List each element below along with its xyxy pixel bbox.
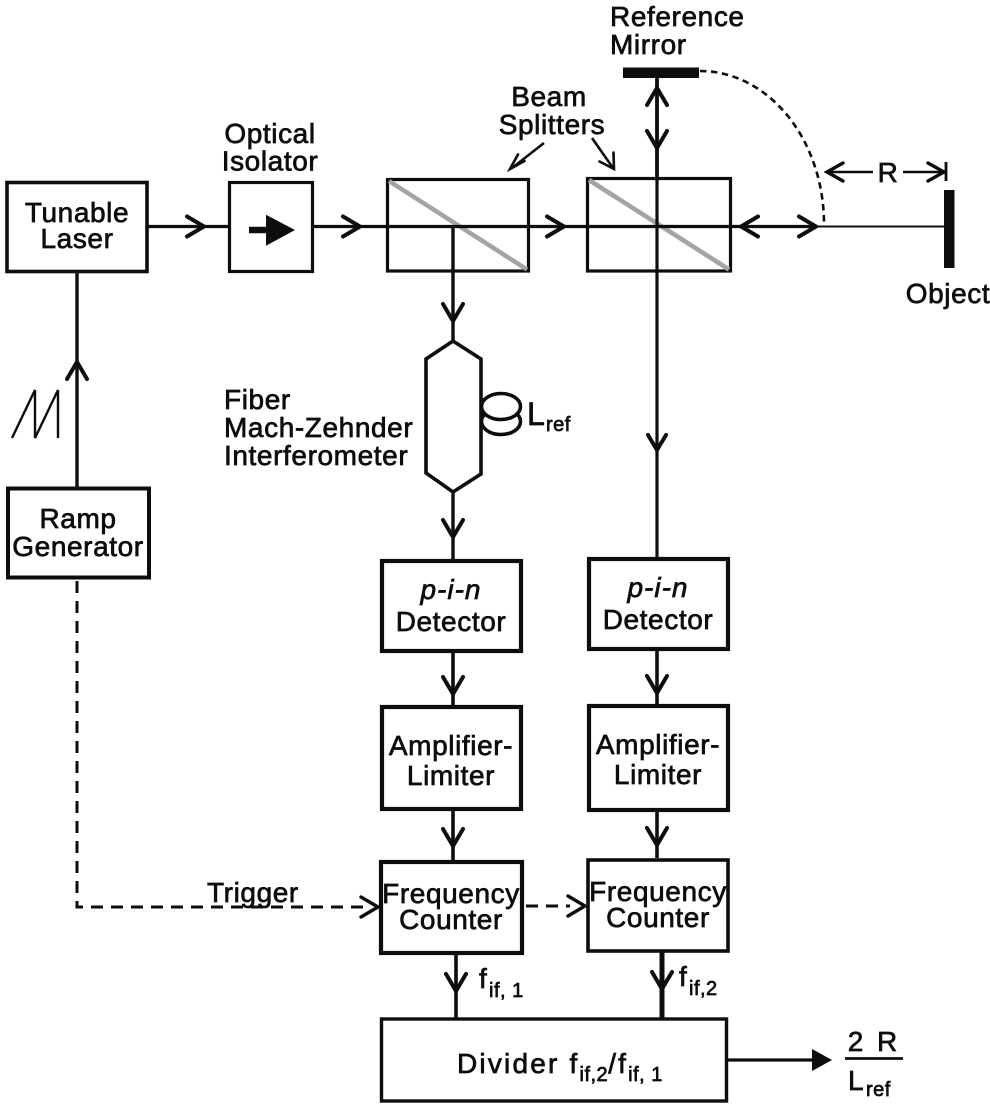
svg-text:Amplifier-: Amplifier- [389, 730, 513, 761]
svg-text:Splitters: Splitters [499, 109, 606, 140]
arrowhead between splitters [547, 217, 564, 237]
arrowhead into pin detector 1 [443, 520, 463, 537]
svg-text:p-i-n: p-i-n [419, 574, 481, 605]
svg-text:f: f [679, 961, 687, 992]
dashed arc mirror to beam line [700, 71, 824, 224]
thin beam line to object [816, 226, 946, 228]
svg-text:Mach-Zehnder: Mach-Zehnder [224, 412, 413, 443]
wire ramp generator to laser [75, 273, 78, 487]
Mach-Zehnder hexagon [426, 341, 481, 492]
svg-text:Limiter: Limiter [614, 759, 702, 790]
R dimension left arrow [827, 171, 873, 174]
box ramp generator [8, 489, 149, 578]
R dimension right arrow [903, 171, 944, 174]
vertical through splitter2 [655, 179, 658, 271]
fiber coil upper loop [482, 394, 521, 420]
svg-text:Trigger: Trigger [207, 877, 299, 908]
wire det1 to amp1 [451, 651, 455, 705]
svg-text:ref: ref [546, 414, 571, 436]
svg-text:p-i-n: p-i-n [626, 572, 688, 603]
box optical isolator [230, 183, 313, 272]
wire splitter2 down to pin detector 2 [655, 271, 658, 557]
svg-text:Generator: Generator [12, 531, 143, 562]
box frequency counter 2 [588, 860, 728, 951]
R dimension end tick [945, 162, 948, 181]
wire splitter1 down to interferometer [451, 227, 454, 342]
svg-text:Detector: Detector [396, 606, 507, 637]
arrowhead into amp1 [443, 677, 463, 694]
box amplifier-limiter 1 [382, 707, 521, 809]
svg-text:Laser: Laser [40, 223, 113, 254]
svg-text:Beam: Beam [511, 81, 587, 112]
pointer arrow to splitter2 [592, 138, 613, 168]
box divider [382, 1019, 727, 1101]
arrowhead into fc1 [443, 829, 463, 846]
svg-text:Counter: Counter [399, 904, 503, 935]
reference mirror bar [623, 68, 699, 79]
svg-text:ref: ref [866, 1079, 891, 1101]
svg-text:Counter: Counter [606, 902, 710, 933]
arrowhead isolator to splitter1 [343, 217, 360, 237]
arrowhead fif2 [652, 972, 672, 989]
svg-text:Ramp: Ramp [39, 503, 116, 534]
svg-text:Interferometer: Interferometer [224, 440, 408, 471]
svg-text:Reference: Reference [610, 1, 745, 32]
arrowhead into fc2 [568, 896, 585, 916]
dashed trigger wire from ramp generator [77, 581, 366, 907]
isolator arrow symbol [249, 227, 270, 234]
svg-text:f: f [479, 963, 487, 994]
dashed wire fc1 to fc2 [526, 905, 570, 908]
main beam line through splitters [386, 225, 534, 228]
svg-text:Amplifier-: Amplifier- [596, 729, 720, 760]
svg-text:Detector: Detector [603, 604, 714, 635]
object bar [944, 190, 955, 268]
arrowhead into fc2 [647, 828, 667, 845]
box Tunable Laser [7, 183, 147, 272]
arrowhead into pin detector 2 [648, 435, 666, 450]
arrowhead into amp2 [647, 676, 667, 693]
svg-text:Mirror: Mirror [610, 29, 687, 60]
arrowhead into interferometer [443, 304, 463, 321]
up arrowhead toward mirror [647, 88, 667, 105]
svg-text:R: R [878, 157, 899, 188]
wire amp1 to fc1 [451, 809, 455, 860]
svg-text:Optical: Optical [224, 118, 315, 149]
svg-text:Isolator: Isolator [222, 146, 319, 177]
wire laser to isolator [147, 225, 228, 228]
svg-text:L: L [527, 396, 545, 432]
box pin detector 1 [382, 561, 521, 651]
arrowhead fif1 [446, 974, 466, 991]
box pin detector 2 [589, 559, 728, 649]
wire fc1 to divider [454, 953, 458, 1018]
wire amp2 to fc2 [655, 810, 659, 858]
svg-text:L: L [848, 1065, 864, 1096]
arrowhead trigger into fc1 [361, 897, 378, 917]
svg-text:2 R: 2 R [848, 1026, 901, 1057]
double arrow splitter2 to R point [741, 225, 816, 228]
wire det2 to amp2 [655, 649, 659, 704]
arrowhead output [812, 1049, 832, 1071]
vertical wire mirror to splitter2 [655, 78, 659, 179]
output wire from divider [728, 1058, 818, 1061]
pointer arrow to splitter1 [512, 143, 544, 168]
beam splitter 2 box [588, 179, 731, 272]
arrowhead up into laser [67, 362, 87, 379]
box frequency counter 1 [381, 862, 522, 953]
sawtooth symbol [12, 390, 58, 438]
svg-text:if,2: if,2 [689, 978, 718, 1000]
arrowhead laser to isolator [187, 217, 204, 237]
wire isolator to splitter1 [313, 225, 388, 228]
svg-text:Object: Object [906, 278, 990, 309]
svg-text:Fiber: Fiber [224, 384, 291, 415]
fiber coil lower loop [482, 409, 521, 435]
svg-text:if, 1: if, 1 [489, 980, 524, 1002]
box amplifier-limiter 2 [589, 706, 728, 810]
beam splitter 1 diagonal [389, 181, 527, 270]
wire interferometer to pin detector 1 [451, 492, 454, 559]
beam splitter 2 diagonal [589, 180, 729, 270]
beam splitter 1 box [388, 180, 529, 272]
down arrowhead toward splitter2 [647, 131, 667, 148]
wire fc2 to divider [660, 951, 665, 1018]
svg-text:Limiter: Limiter [407, 760, 495, 791]
